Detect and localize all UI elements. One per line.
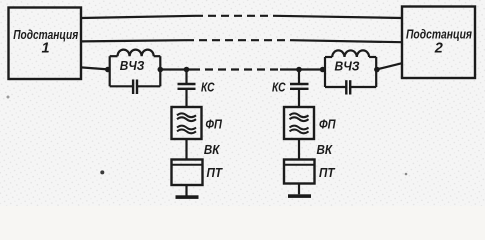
- wire: line 1 dashed middle: [195, 15, 275, 17]
- ground bar (right): [288, 194, 311, 198]
- line trap L2 (ВЧЗ) parallel LC: [325, 50, 376, 94]
- wire: line 2 solid right: [291, 40, 402, 42]
- wire: junction to coupling capacitor C1: [185, 70, 187, 84]
- wire: line 3 from dashes to line trap 2: [280, 68, 325, 70]
- wire: line 3 from line trap 2 to box 2: [376, 63, 402, 69]
- node A: left branch junction: [184, 67, 190, 73]
- svg-text:ФП: ФП: [205, 117, 222, 131]
- filter FP2 box (ФП): [284, 107, 314, 139]
- wire: line 2 dashed middle: [186, 39, 291, 41]
- filter FP1 wavy symbol bottom: [177, 126, 196, 130]
- transceiver PT1 box (ПТ): [172, 160, 203, 186]
- svg-text:ПТ: ПТ: [319, 166, 336, 180]
- left branch: [172, 70, 203, 196]
- right branch: [284, 70, 315, 195]
- wire: line 3 from box 1 to line trap 1: [81, 67, 110, 69]
- ink speck 3: [7, 96, 10, 99]
- ground bar (left): [176, 195, 199, 199]
- wire: cable ВК between FP1 and PT1: [185, 139, 187, 160]
- ink speck 2: [405, 173, 408, 176]
- wire: capacitor C1 to filter box: [185, 90, 187, 107]
- node: trap 2 left terminal: [320, 67, 326, 73]
- capacitor C2 (КС) plates: [290, 83, 309, 85]
- svg-text:ПТ: ПТ: [207, 166, 224, 180]
- svg-text:ВК: ВК: [204, 143, 221, 157]
- wire: line 3 from line trap 1 to node A: [160, 68, 192, 70]
- line trap L1 (ВЧЗ) parallel LC: [110, 50, 161, 94]
- wire: line 2 solid left: [81, 40, 186, 41]
- svg-text:ВК: ВК: [317, 143, 334, 157]
- node: trap 1 right terminal: [158, 67, 164, 73]
- filter FP1 box (ФП): [172, 107, 202, 139]
- filter FP2 wavy symbol top: [290, 113, 309, 117]
- substation box 2 (Подстанция 2): [402, 7, 475, 79]
- wire: junction to coupling capacitor C2: [298, 70, 300, 84]
- wire: capacitor C2 to filter box: [298, 90, 300, 107]
- filter FP2 wavy symbol bottom: [290, 126, 309, 130]
- substation box 1 (Подстанция 1): [9, 8, 82, 80]
- capacitor C1 (КС) plates: [178, 83, 196, 85]
- ink speck: [100, 170, 104, 174]
- wire: PT1 to ground: [185, 185, 187, 196]
- node B: right branch junction: [296, 67, 302, 73]
- transceiver PT2 box (ПТ): [284, 160, 315, 184]
- wire: line 1 solid right: [275, 16, 402, 18]
- svg-text:ВЧЗ: ВЧЗ: [335, 58, 361, 73]
- svg-text:КС: КС: [272, 81, 286, 95]
- node: trap 2 right terminal: [374, 67, 380, 73]
- svg-text:2: 2: [434, 41, 443, 57]
- wire: line 1 solid left: [81, 16, 195, 18]
- wire: cable ВК between FP2 and PT2: [298, 139, 300, 160]
- filter FP1 wavy symbol top: [177, 113, 196, 117]
- svg-text:ВЧЗ: ВЧЗ: [120, 58, 145, 73]
- node: trap 1 left terminal: [105, 67, 111, 73]
- wire: line 3 dashed middle: [192, 68, 280, 70]
- wire: PT2 to ground: [298, 184, 300, 195]
- svg-text:КС: КС: [201, 81, 215, 95]
- svg-text:Подстанция: Подстанция: [406, 27, 472, 42]
- svg-text:ФП: ФП: [319, 117, 336, 131]
- svg-text:1: 1: [41, 41, 49, 57]
